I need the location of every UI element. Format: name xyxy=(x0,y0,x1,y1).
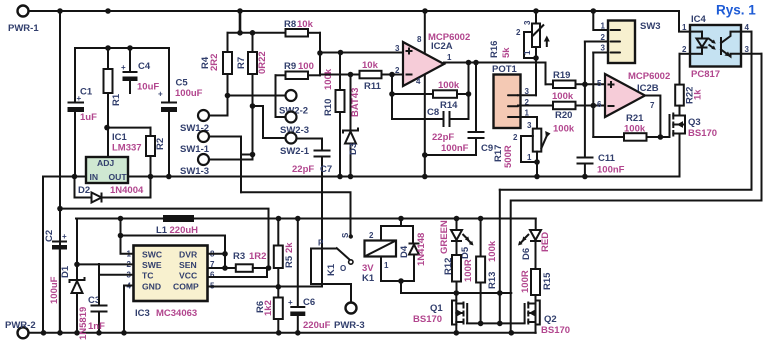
wire SW1-2 riser xyxy=(209,96,228,116)
svg-text:R1: R1 xyxy=(111,93,122,106)
svg-text:Q3: Q3 xyxy=(688,117,701,128)
capacitor C7 22pF xyxy=(292,139,332,287)
wire R1 column x108 xyxy=(107,48,109,157)
svg-text:500R: 500R xyxy=(503,145,514,168)
capacitor C6 220uF xyxy=(288,216,331,333)
connector SW1-3 xyxy=(198,154,209,165)
resistor R14 100k xyxy=(433,80,469,111)
wire R1 bottom to ADJ and R2 xyxy=(107,127,151,129)
connector SW1-2 xyxy=(198,110,209,121)
resistor R7 0R22 xyxy=(236,33,268,160)
resistor R3 1R2 xyxy=(233,251,271,272)
node dots bottom rail xyxy=(41,330,47,336)
wire rail y200.5 to PC817 pin3 riser xyxy=(511,54,762,333)
switch K1 contact xyxy=(311,232,353,303)
svg-text:PWR-2: PWR-2 xyxy=(5,320,36,331)
resistor R22 1k xyxy=(675,54,703,116)
wire pin8 riser xyxy=(424,11,426,53)
svg-text:D4: D4 xyxy=(399,245,410,258)
svg-text:K1: K1 xyxy=(326,263,337,276)
svg-text:1uF: 1uF xyxy=(80,112,97,123)
diode D1 1N5819 xyxy=(60,219,89,341)
resistor R9 100 xyxy=(276,61,321,79)
svg-text:R9: R9 xyxy=(284,61,296,72)
svg-text:100nF: 100nF xyxy=(441,143,469,154)
svg-text:Q1: Q1 xyxy=(430,303,443,314)
svg-text:C2: C2 xyxy=(44,230,55,242)
led inside xyxy=(690,31,702,33)
svg-text:8: 8 xyxy=(417,35,422,44)
wire R7 to SW2-1 dogleg xyxy=(253,106,286,138)
svg-text:6: 6 xyxy=(210,271,215,280)
led D5 GREEN xyxy=(439,216,474,259)
svg-text:DVR: DVR xyxy=(179,250,198,260)
svg-text:R11: R11 xyxy=(364,81,382,92)
svg-text:IC3: IC3 xyxy=(135,308,150,319)
led D6 RED xyxy=(518,219,551,270)
svg-text:C6: C6 xyxy=(303,297,315,308)
capacitor C8 22pF xyxy=(392,107,469,143)
svg-text:R13: R13 xyxy=(487,272,498,289)
svg-text:IC2A: IC2A xyxy=(431,41,453,52)
op-amp IC2B MCP6002 xyxy=(597,71,670,117)
resistor R5 2k xyxy=(274,216,295,268)
svg-text:1nF: 1nF xyxy=(88,321,105,332)
wire -input y74.5 xyxy=(320,74,360,76)
svg-text:R8: R8 xyxy=(284,19,296,30)
resistor R13 100k xyxy=(476,216,498,327)
wire IC3 pin5 COMP xyxy=(208,286,323,288)
svg-text:1: 1 xyxy=(447,53,452,62)
capacitor C2 100uF xyxy=(44,230,67,333)
op-amp IC2A MCP6002 xyxy=(395,32,470,86)
svg-text:C7: C7 xyxy=(320,164,332,175)
wire IC3 pin3 TC to C3 xyxy=(99,275,134,305)
wire mid rail y176 (regulator OUT rail) xyxy=(43,177,679,333)
phototransistor xyxy=(720,37,722,55)
svg-text:C11: C11 xyxy=(598,153,616,164)
node y208.6 dot xyxy=(57,206,63,212)
svg-text:100uF: 100uF xyxy=(49,276,60,304)
resistor R2 xyxy=(146,128,166,177)
connector PWR-3 xyxy=(346,303,357,314)
wire y48 header xyxy=(75,48,169,101)
connector SW2-1 xyxy=(286,133,297,144)
svg-text:6: 6 xyxy=(597,100,602,109)
svg-text:PC817: PC817 xyxy=(691,69,720,80)
wire POT1 pin1 to R17 xyxy=(518,117,537,129)
wire IC4 pin2 to R22 xyxy=(680,53,691,55)
svg-text:MCP6002: MCP6002 xyxy=(628,71,670,82)
wire output y62.5 xyxy=(444,63,546,85)
svg-text:100k: 100k xyxy=(624,124,646,135)
wire IC3 pin1 SWC riser xyxy=(121,219,134,254)
capacitor C9 100nF xyxy=(425,60,493,155)
svg-text:C5: C5 xyxy=(176,78,189,89)
wire IC3 pin6 VCC jog xyxy=(208,268,268,277)
capacitor C5 xyxy=(158,78,203,177)
svg-text:100uF: 100uF xyxy=(175,88,203,99)
diode D4 1N4148 xyxy=(398,233,427,284)
svg-text:Q2: Q2 xyxy=(544,314,557,325)
svg-text:10k: 10k xyxy=(362,60,379,71)
svg-text:O: O xyxy=(340,264,346,273)
svg-text:VCC: VCC xyxy=(179,271,197,281)
svg-text:R10: R10 xyxy=(323,99,334,116)
photon arrow xyxy=(709,39,715,43)
wire SW3 pin3 riser x593.3 to R21 xyxy=(592,53,594,138)
svg-text:C1: C1 xyxy=(80,87,93,98)
svg-text:IC2B: IC2B xyxy=(637,83,659,94)
svg-text:10k: 10k xyxy=(297,19,314,30)
resistor R12 100R xyxy=(443,255,474,293)
svg-text:D1: D1 xyxy=(60,265,71,278)
potentiometer POT1 xyxy=(492,64,530,128)
svg-text:1N4004: 1N4004 xyxy=(110,185,144,196)
wire fb top y94 xyxy=(392,93,433,95)
svg-text:+: + xyxy=(158,90,163,99)
svg-text:SWC: SWC xyxy=(142,250,162,260)
svg-text:R7: R7 xyxy=(236,57,247,69)
IC3 MC34063 xyxy=(127,246,216,320)
svg-text:ADJ: ADJ xyxy=(97,158,114,168)
wire IC3 pin8 DVR xyxy=(208,253,226,255)
wire R4 bottom node to SW2-2 xyxy=(228,95,286,97)
resistor R1 xyxy=(104,69,123,106)
svg-text:R3: R3 xyxy=(233,251,245,262)
svg-text:SEN: SEN xyxy=(179,260,197,270)
wire rail y218.5 output/L1 rail xyxy=(76,218,536,220)
svg-text:GREEN: GREEN xyxy=(439,220,450,254)
wire left vertical x60 PWR-1 drop xyxy=(59,11,61,333)
resistor R19 100k xyxy=(546,70,606,102)
capacitor C1 xyxy=(68,87,98,177)
transistor Q1 BS170 xyxy=(413,293,467,333)
svg-text:7: 7 xyxy=(650,101,655,110)
svg-text:POT1: POT1 xyxy=(492,64,518,75)
svg-text:R14: R14 xyxy=(440,100,458,111)
wire Q1 gate to node y323.4 xyxy=(467,322,500,324)
svg-text:22pF: 22pF xyxy=(432,132,454,143)
node dots rail 176 xyxy=(72,174,78,180)
svg-text:+: + xyxy=(288,298,293,307)
connector SW2-2 xyxy=(286,90,297,101)
svg-text:100k: 100k xyxy=(438,80,460,91)
connector SW2-3 xyxy=(286,112,297,123)
transistor Q3 BS170 xyxy=(670,113,718,177)
svg-text:220uH: 220uH xyxy=(170,225,199,236)
svg-text:R19: R19 xyxy=(553,70,570,81)
svg-text:100: 100 xyxy=(298,61,314,72)
svg-text:220uF: 220uF xyxy=(303,320,331,331)
svg-text:L1: L1 xyxy=(156,225,168,236)
wire R9 left riser down to SW2-3 xyxy=(276,75,286,117)
diode D2 1N4004 xyxy=(75,177,151,203)
svg-text:R2: R2 xyxy=(155,138,166,150)
wire IC3 pin2 SWE xyxy=(77,263,134,265)
trimmer R17 500R xyxy=(493,121,551,179)
svg-text:1: 1 xyxy=(527,153,532,162)
svg-text:3: 3 xyxy=(745,45,750,54)
svg-text:1: 1 xyxy=(384,261,389,270)
svg-text:LM337: LM337 xyxy=(112,143,142,154)
wire SW3 pin1 xyxy=(593,11,608,30)
svg-text:2k: 2k xyxy=(284,242,295,253)
svg-text:D6: D6 xyxy=(521,248,532,260)
wire R8/R9 right column x320 xyxy=(319,33,321,76)
wire top +V rail xyxy=(29,10,680,12)
wire SW1-3 xyxy=(209,159,253,161)
svg-text:100k: 100k xyxy=(323,68,334,90)
svg-text:1: 1 xyxy=(523,50,532,55)
resistor R10 100k xyxy=(323,53,345,177)
wire SW1-1 to x241 riser xyxy=(209,137,241,193)
svg-text:2: 2 xyxy=(682,45,687,54)
svg-text:BS170: BS170 xyxy=(688,128,717,139)
svg-text:OUT: OUT xyxy=(109,172,128,182)
svg-text:+: + xyxy=(121,63,126,72)
svg-text:100nF: 100nF xyxy=(597,165,625,176)
connector SW3 xyxy=(601,21,661,64)
wire Q3 gate xyxy=(660,136,669,138)
optocoupler IC4 PC817 xyxy=(682,14,750,80)
node y48 dots xyxy=(105,45,111,51)
wire SW3 pin2 xyxy=(585,41,608,43)
wire rail y208.6 Vin feed xyxy=(60,209,269,268)
svg-text:GND: GND xyxy=(142,282,161,292)
wire pin2 feedback riser xyxy=(391,75,393,120)
wire gate node to Q2 xyxy=(500,322,525,324)
svg-text:IN: IN xyxy=(90,172,99,182)
svg-text:D3: D3 xyxy=(348,143,359,155)
wire IC4 pin4 stub xyxy=(741,31,752,33)
svg-text:0R22: 0R22 xyxy=(257,51,268,74)
svg-text:SW2-1: SW2-1 xyxy=(280,146,310,157)
svg-text:R20: R20 xyxy=(555,110,572,121)
svg-text:BS170: BS170 xyxy=(413,314,442,325)
resistor R20 100k xyxy=(553,102,605,135)
svg-text:P: P xyxy=(318,239,324,248)
svg-text:2: 2 xyxy=(395,66,400,75)
svg-text:D2: D2 xyxy=(78,185,90,196)
resistor R6 1k2 xyxy=(255,268,283,333)
transistor Q2 BS170 xyxy=(525,295,570,336)
svg-text:5: 5 xyxy=(597,79,602,88)
wire output node x468.5 xyxy=(468,63,470,120)
svg-text:IC1: IC1 xyxy=(112,132,128,143)
svg-text:3: 3 xyxy=(527,121,532,130)
svg-text:1N4148: 1N4148 xyxy=(416,233,427,266)
IC1 LM337 regulator xyxy=(86,132,142,183)
node dots top rail xyxy=(57,8,63,14)
svg-text:+: + xyxy=(62,232,67,241)
diode D3 BAT43 xyxy=(343,75,361,177)
wire IC3 pin7 SEN to R3 xyxy=(208,267,236,269)
svg-text:4: 4 xyxy=(416,77,421,86)
svg-text:100R: 100R xyxy=(520,270,531,293)
trimmer R16 5k xyxy=(489,11,550,61)
svg-text:1R2: 1R2 xyxy=(249,251,266,262)
svg-text:S: S xyxy=(341,232,350,238)
svg-text:100k: 100k xyxy=(553,124,575,135)
relay coil K1 3V xyxy=(362,216,413,284)
resistor R15 100R xyxy=(520,269,553,295)
wire link y154.5 xyxy=(241,154,253,156)
resistor R8 10k xyxy=(240,11,320,37)
resistor R21 100k xyxy=(593,113,660,141)
svg-text:5k: 5k xyxy=(501,47,512,58)
svg-text:Rys. 1: Rys. 1 xyxy=(716,3,756,18)
svg-text:PWR-1: PWR-1 xyxy=(8,23,39,34)
wire IC4 pin1 riser xyxy=(679,11,690,32)
resistor R11 10k xyxy=(360,60,404,92)
wire opto collector drop x499.8 xyxy=(499,190,501,324)
wire R16 to POT1 pin3 xyxy=(535,58,537,95)
wire DVR link y235.5 xyxy=(121,236,226,269)
svg-text:R16: R16 xyxy=(489,41,500,58)
svg-text:TC: TC xyxy=(142,271,153,281)
svg-text:100R: 100R xyxy=(463,259,474,282)
svg-text:2: 2 xyxy=(369,231,374,240)
svg-text:2: 2 xyxy=(516,28,521,37)
svg-text:R21: R21 xyxy=(626,113,644,124)
connector PWR-2 xyxy=(18,327,29,338)
svg-text:C9: C9 xyxy=(481,143,493,154)
svg-text:100k: 100k xyxy=(552,91,574,102)
svg-text:SWE: SWE xyxy=(142,260,162,270)
svg-text:BAT43: BAT43 xyxy=(350,88,361,117)
capacitor C4 xyxy=(121,48,159,93)
wire SW3 pin3 xyxy=(593,52,608,54)
wire relay node to Q1 drain / opto xyxy=(401,281,511,293)
svg-text:K1: K1 xyxy=(362,273,375,284)
svg-text:SW3: SW3 xyxy=(640,21,661,32)
wire pin4 riser xyxy=(424,75,426,177)
svg-text:PWR-3: PWR-3 xyxy=(334,320,365,331)
svg-text:100k: 100k xyxy=(487,240,498,262)
svg-text:R15: R15 xyxy=(542,272,553,290)
svg-text:1k2: 1k2 xyxy=(263,300,274,316)
svg-text:22pF: 22pF xyxy=(292,164,314,175)
wire POT1 pin2 to R20 xyxy=(518,105,553,107)
wire POT1 pin3 xyxy=(518,94,536,96)
svg-text:IC4: IC4 xyxy=(691,14,707,25)
wire SW3 pin2 riser x584.9 to C11 xyxy=(584,42,586,158)
connector SW1-1 xyxy=(198,131,209,142)
svg-text:BS170: BS170 xyxy=(541,325,570,336)
svg-text:MC34063: MC34063 xyxy=(156,308,197,319)
svg-text:C4: C4 xyxy=(138,61,151,72)
svg-text:2R2: 2R2 xyxy=(209,54,220,71)
svg-text:3: 3 xyxy=(523,20,532,25)
svg-text:SW1-3: SW1-3 xyxy=(180,166,209,177)
svg-text:C8: C8 xyxy=(427,107,439,118)
svg-text:2: 2 xyxy=(513,133,518,142)
wire rail y192 from x241 riser to K1 contact S xyxy=(241,192,351,237)
connector PWR-1 xyxy=(18,6,29,17)
wire IC2B output to gate node xyxy=(645,96,660,138)
svg-text:COMP: COMP xyxy=(173,282,199,292)
svg-text:R12: R12 xyxy=(443,258,454,275)
svg-text:R5: R5 xyxy=(284,255,295,268)
resistor R4 2R2 xyxy=(200,33,232,96)
svg-text:1k: 1k xyxy=(693,89,704,100)
wire rail y189.8 opto collector to PC817 pin4 riser xyxy=(500,32,752,190)
svg-text:3: 3 xyxy=(395,44,400,53)
wire +input y52.5 xyxy=(320,52,403,54)
capacitor C11 100nF xyxy=(577,153,625,179)
wire IC3 pin4 GND xyxy=(124,286,134,333)
svg-text:RED: RED xyxy=(540,232,551,252)
wire bottom rail PWR-2 xyxy=(29,332,536,334)
inductor L1 220uH xyxy=(156,215,198,236)
svg-text:3: 3 xyxy=(601,44,606,53)
capacitor C3 1nF xyxy=(88,264,108,333)
svg-text:10uF: 10uF xyxy=(137,82,159,93)
wire IC4 pin3 stub xyxy=(741,53,762,55)
wire y33 header xyxy=(228,32,286,34)
